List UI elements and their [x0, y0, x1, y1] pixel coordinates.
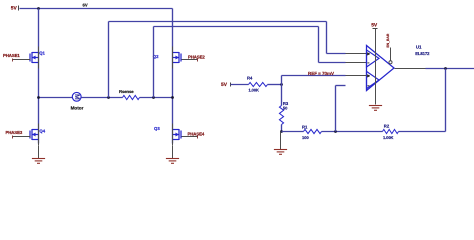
svg-text:M: M: [73, 94, 80, 100]
svg-text:5V: 5V: [11, 6, 18, 12]
svg-text:PHASE4: PHASE4: [188, 131, 205, 136]
svg-text:Motor: Motor: [71, 105, 84, 110]
svg-text:Q3: Q3: [154, 126, 160, 131]
svg-text:EL8172: EL8172: [415, 51, 430, 56]
svg-text:5V: 5V: [371, 23, 378, 29]
svg-text:Rsense: Rsense: [119, 89, 134, 94]
svg-text:R1: R1: [302, 125, 308, 130]
svg-text:1.00K: 1.00K: [249, 88, 259, 93]
svg-text:U1: U1: [416, 44, 422, 49]
svg-text:Q4: Q4: [39, 129, 45, 134]
svg-text:REF = 70mV: REF = 70mV: [308, 71, 334, 76]
svg-text:PHASE3: PHASE3: [6, 130, 23, 135]
svg-text:PHASE1: PHASE1: [3, 53, 20, 58]
svg-text:5V: 5V: [221, 82, 228, 88]
svg-text:1.00K: 1.00K: [383, 135, 393, 140]
svg-text:50: 50: [283, 105, 288, 110]
svg-text:PHASE2: PHASE2: [188, 54, 205, 59]
svg-text:6V: 6V: [83, 3, 88, 8]
svg-text:EN_BAR: EN_BAR: [386, 33, 390, 47]
svg-text:100: 100: [302, 135, 309, 140]
svg-text:R2: R2: [384, 124, 390, 129]
svg-text:Q1: Q1: [39, 50, 45, 55]
svg-text:R4: R4: [247, 76, 253, 81]
